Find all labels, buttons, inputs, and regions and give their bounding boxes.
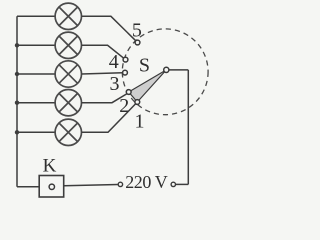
node: junction dot 5 bbox=[15, 130, 19, 134]
svg-text:K: K bbox=[43, 156, 57, 177]
switch K inner circle bbox=[49, 184, 54, 189]
wire: bottom left bbox=[17, 186, 39, 188]
wire: branch 2 left bbox=[17, 44, 55, 46]
svg-text:220 V: 220 V bbox=[125, 172, 168, 192]
node: junction dot 2 bbox=[15, 43, 19, 47]
source terminal left bbox=[118, 182, 122, 186]
wire: branch 1 right to contact 5 bbox=[82, 16, 136, 40]
lamp L5 bbox=[55, 119, 81, 145]
node: junction dot 3 bbox=[15, 72, 19, 76]
contact 5 bbox=[135, 40, 140, 45]
contact 4 bbox=[123, 57, 128, 62]
wire: branch 4 left bbox=[17, 102, 55, 104]
wire: branch 3 right to contact 3 bbox=[82, 73, 123, 74]
pivot of switch S bbox=[164, 67, 169, 72]
wire: branch 3 left bbox=[17, 73, 55, 75]
wire: branch 5 right to contact 1 bbox=[82, 104, 136, 132]
svg-text:1: 1 bbox=[135, 111, 145, 133]
wire: left rail bbox=[16, 16, 18, 187]
wire: branch 1 left bbox=[17, 15, 55, 17]
wire: branch 4 right to contact 2 bbox=[82, 94, 128, 103]
rotary switch dashed circle bbox=[122, 29, 208, 115]
wire: switch K to left source terminal bbox=[64, 185, 118, 186]
source terminal right bbox=[171, 182, 175, 186]
wire: branch 2 right to contact 4 bbox=[82, 45, 124, 58]
lamp L1 bbox=[55, 3, 81, 29]
svg-text:3: 3 bbox=[110, 73, 120, 95]
lamp L3 bbox=[55, 61, 81, 87]
wire: right rail down bbox=[187, 70, 189, 184]
contact 2 bbox=[126, 90, 131, 95]
wire: pivot to right rail bbox=[169, 69, 188, 71]
wire: bottom right to source terminal bbox=[176, 183, 189, 185]
contact 1 bbox=[135, 100, 140, 105]
svg-text:5: 5 bbox=[132, 19, 142, 41]
svg-text:4: 4 bbox=[109, 51, 119, 73]
switch K box bbox=[39, 176, 64, 198]
lamp L4 bbox=[55, 90, 81, 116]
wiper arm of switch S bbox=[129, 70, 167, 102]
svg-text:S: S bbox=[139, 55, 150, 77]
svg-text:2: 2 bbox=[119, 95, 129, 117]
lamp L2 bbox=[55, 32, 81, 58]
wire: branch 5 left bbox=[17, 131, 55, 133]
contact 3 bbox=[123, 70, 128, 75]
node: junction dot 4 bbox=[15, 101, 19, 105]
